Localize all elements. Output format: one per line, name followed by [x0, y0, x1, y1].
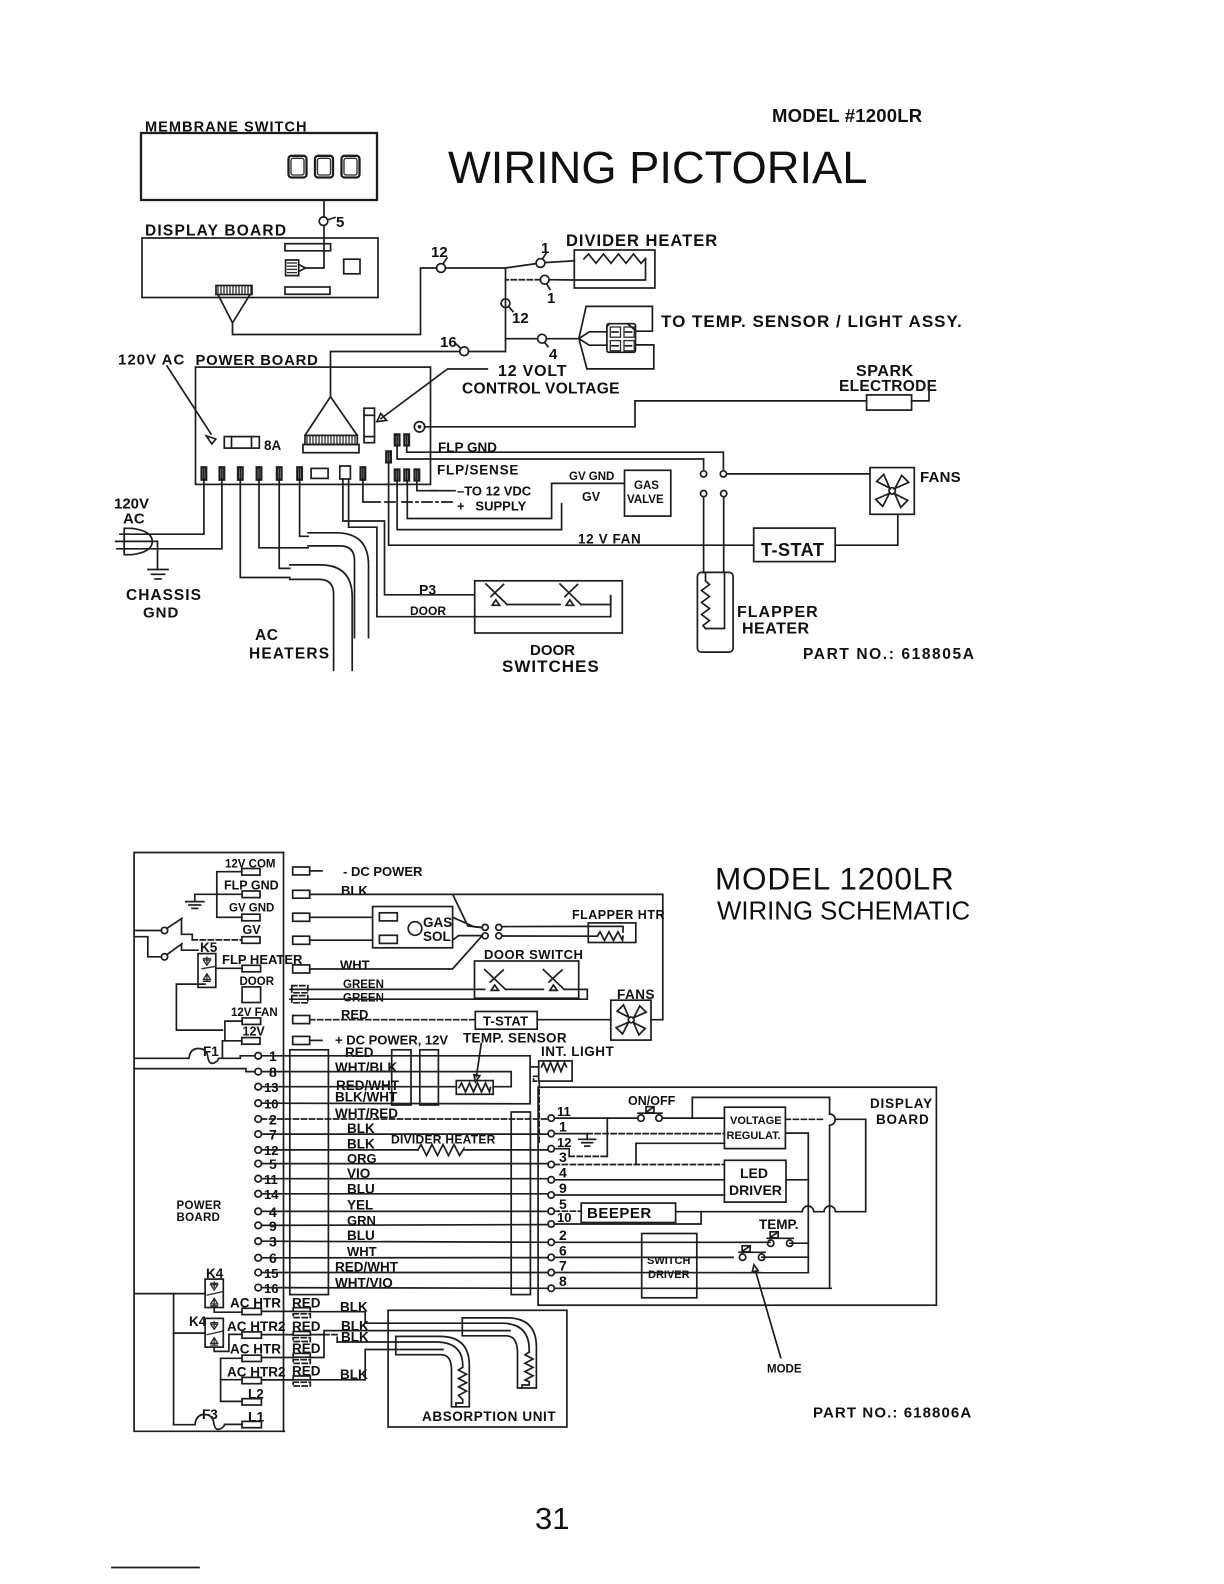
membrane button 1: [289, 156, 307, 178]
svg-text:FLP/SENSE: FLP/SENSE: [437, 463, 519, 478]
flapper htr resistor: [597, 932, 623, 941]
row 9 wire: [554, 1194, 724, 1196]
node 1 circle (lower): [540, 275, 549, 284]
door switch box: [475, 961, 579, 998]
svg-text:12: 12: [557, 1135, 571, 1150]
svg-text:WIRING SCHEMATIC: WIRING SCHEMATIC: [717, 898, 970, 926]
temp sensor connector rects: [392, 1050, 411, 1105]
DOOR connector square: [242, 987, 261, 1003]
AC HTR terminal 1: [242, 1308, 261, 1314]
svg-text:WHT/BLK: WHT/BLK: [335, 1060, 397, 1075]
arrow 120VAC to fuse: [167, 366, 211, 434]
o8 feed wire: [134, 1069, 255, 1072]
svg-text:WHT: WHT: [347, 1244, 377, 1259]
12 V FAN wire: [389, 462, 754, 545]
wire hot: plug to pin1: [120, 480, 204, 535]
RED row connector + wire: [293, 1016, 310, 1024]
svg-text:DRIVER: DRIVER: [729, 1182, 782, 1198]
flapper htr inner wire: [588, 926, 623, 932]
membrane button 3: [342, 156, 360, 178]
GV GND row connector + wire: [293, 913, 310, 921]
svg-text:ABSORPTION UNIT: ABSORPTION UNIT: [422, 1409, 556, 1424]
display board edge connector (hatched): [216, 286, 252, 323]
wire 16 to power board connector: [331, 352, 460, 397]
T-STAT to fans: [537, 1019, 611, 1021]
membrane switch box: [141, 133, 377, 200]
svg-text:TEMP.: TEMP.: [759, 1217, 799, 1232]
svg-text:8: 8: [559, 1273, 567, 1289]
door switch inner wire: [506, 988, 544, 990]
svg-text:WHT: WHT: [340, 958, 370, 973]
svg-text:T-STAT: T-STAT: [761, 540, 824, 560]
svg-text:TO TEMP. SENSOR / LIGHT ASSY.: TO TEMP. SENSOR / LIGHT ASSY.: [661, 312, 963, 331]
GV GND wire: [407, 481, 624, 519]
gas sol inner terminals: [379, 913, 397, 921]
svg-text:9: 9: [559, 1180, 567, 1196]
absorption unit box: [388, 1310, 567, 1427]
svg-text:K4: K4: [189, 1314, 207, 1329]
svg-text:DIVIDER HEATER: DIVIDER HEATER: [566, 232, 718, 250]
int light resistor: [542, 1063, 567, 1072]
divider heater resistor: [584, 254, 646, 263]
T-STAT box: [754, 528, 836, 562]
wire row3 to element A: [261, 1357, 293, 1359]
wire gnd prong to chassis: [116, 541, 158, 569]
svg-text:INT. LIGHT: INT. LIGHT: [541, 1044, 614, 1059]
power board pins row: [202, 434, 420, 480]
spark electrode stub: [912, 386, 929, 401]
row 10 wire: [554, 1212, 701, 1224]
LED driver output: [786, 1179, 808, 1181]
display board box: [538, 1087, 936, 1305]
int light resistor box: [539, 1061, 572, 1081]
door switch symbol 1: [486, 584, 507, 605]
membrane button 2: [315, 156, 333, 178]
svg-text:BOARD: BOARD: [876, 1112, 930, 1127]
row 7 wire: [554, 1272, 808, 1274]
svg-text:FLP HEATER: FLP HEATER: [222, 952, 303, 967]
GREEN wire 1: [290, 988, 485, 990]
wires to flapper heater: [703, 497, 705, 573]
12V terminal: [242, 1038, 260, 1045]
connector circles flapper: [701, 471, 707, 477]
svg-text:AC HTR: AC HTR: [230, 1342, 281, 1357]
svg-text:HEATERS: HEATERS: [249, 646, 330, 663]
relay component: [364, 408, 375, 443]
GV GND terminal: [242, 914, 260, 921]
fans box: [611, 1000, 651, 1040]
beeper output wire with hops: [676, 1206, 866, 1212]
display terminals: [548, 1104, 571, 1292]
12V FAN wire: [225, 1021, 242, 1041]
top loop: [692, 1097, 829, 1118]
svg-text:16: 16: [264, 1281, 278, 1296]
+ SUPPLY leader (dash-dot): [363, 481, 380, 503]
connector fan-in lines: [579, 332, 607, 345]
AC HTR terminal 3: [242, 1355, 261, 1361]
svg-text:FLAPPER HTR: FLAPPER HTR: [572, 908, 665, 922]
voltage regulator box: [724, 1107, 785, 1148]
svg-text:12: 12: [431, 244, 448, 261]
display board top bar: [285, 244, 331, 251]
fan blades: [616, 1005, 646, 1035]
power board box: [196, 367, 431, 484]
relay1 to AC HTR wire: [214, 1308, 242, 1313]
K4 relay 1: [205, 1279, 223, 1307]
svg-text:8A: 8A: [264, 438, 282, 453]
svg-text:1: 1: [547, 290, 555, 307]
wire pin5 to lower AC heater: [279, 480, 290, 569]
wire pin6 to upper AC heater: [300, 480, 309, 537]
120V plug symbol: [124, 528, 152, 554]
breaker switch 1: [134, 918, 242, 940]
svg-text:12V: 12V: [243, 1025, 266, 1039]
display board bottom bar: [285, 287, 330, 294]
12V wire to F1: [222, 1041, 241, 1059]
wire membrane to display board: [323, 200, 325, 217]
FLP GND wire: [407, 445, 724, 469]
K5 contacts: [202, 957, 216, 982]
svg-text:5: 5: [336, 214, 344, 231]
svg-text:120V AC: 120V AC: [118, 352, 185, 369]
svg-text:YEL: YEL: [347, 1198, 373, 1213]
row 8 wire: [554, 1287, 829, 1289]
AC heater elbow 1 (upper): [308, 533, 368, 638]
svg-text:- DC POWER: - DC POWER: [343, 864, 423, 879]
K5 relay box: [198, 954, 216, 988]
spark electrode body: [867, 395, 912, 410]
svg-text:31: 31: [535, 1501, 569, 1536]
svg-text:10: 10: [557, 1210, 571, 1225]
F1 fuse wire: [134, 1049, 255, 1064]
MODE leader arrow: [756, 1271, 781, 1358]
heater element B (right): [462, 1318, 536, 1388]
FLP HEATER terminal: [242, 965, 261, 972]
footer rule: [112, 1567, 199, 1569]
svg-text:AC: AC: [255, 627, 279, 644]
svg-text:REGULAT.: REGULAT.: [727, 1130, 781, 1142]
heater chain wires: [221, 1358, 242, 1401]
flapper heater body: [697, 572, 733, 652]
svg-text:2: 2: [559, 1227, 567, 1243]
svg-text:12 VOLT: 12 VOLT: [498, 363, 567, 380]
voltage reg right wires: [785, 1118, 824, 1120]
wire square-pin to DOOR: [349, 479, 611, 617]
display board box: [142, 238, 378, 298]
door switch symbol 2: [543, 970, 564, 991]
flapper heater inner wire: [706, 573, 725, 629]
door switches inner wire: [507, 604, 560, 606]
svg-text:7: 7: [559, 1258, 567, 1274]
wire row1 to element B: [261, 1310, 293, 1312]
row 5 wire to beeper: [554, 1210, 581, 1212]
K4 relay 2: [205, 1318, 223, 1347]
svg-text:HEATER: HEATER: [742, 621, 810, 638]
wire pin4 to upper AC heater: [259, 480, 308, 548]
svg-text:LED: LED: [740, 1165, 768, 1181]
svg-text:15: 15: [264, 1266, 278, 1281]
svg-text:GV: GV: [582, 490, 601, 504]
svg-text:CHASSIS: CHASSIS: [126, 587, 202, 604]
wire neutral: plug to pin2: [117, 480, 222, 549]
GV row connector + wire: [293, 936, 310, 944]
flapper heater element: [702, 573, 710, 629]
heater element A (left): [396, 1336, 470, 1406]
BLK diagonal to connector: [453, 894, 482, 927]
svg-text:BLK/WHT: BLK/WHT: [335, 1090, 398, 1105]
gas sol outputs to connector: [453, 917, 482, 927]
AC heater elbow 2 (lower): [290, 565, 352, 670]
GV wire: [397, 481, 561, 530]
node 1 circle (top): [536, 259, 545, 268]
svg-text:1: 1: [541, 240, 549, 257]
svg-text:GAS: GAS: [634, 480, 659, 492]
FLP GND ground wire: [195, 894, 242, 901]
row 12 loop to row 11: [554, 1149, 569, 1157]
AC HTR2 terminal 4: [242, 1377, 261, 1383]
svg-text:DISPLAY BOARD: DISPLAY BOARD: [145, 223, 287, 240]
harness connector housing (right tall): [511, 1112, 530, 1295]
wire node4 to connector arrow: [546, 338, 579, 340]
FLP/SENSE wire: [397, 445, 703, 469]
wire square-pin to P3: [343, 479, 475, 595]
BLK wire long to fans right: [310, 894, 663, 1019]
node 4 circle: [538, 334, 547, 343]
breaker switch 2: [134, 937, 198, 960]
AC HTR2 terminal: [242, 1332, 261, 1338]
svg-text:4: 4: [549, 346, 558, 363]
svg-text:16: 16: [440, 334, 457, 351]
wire fans feed: [727, 473, 870, 475]
svg-text:PART NO.: 618805A: PART NO.: 618805A: [803, 646, 976, 663]
FLP GND terminal: [242, 891, 260, 898]
node 16 wire: [469, 351, 506, 353]
wire pin3 to lower AC heater: [240, 480, 289, 578]
wire to spark electrode: [425, 401, 867, 427]
svg-text:GND: GND: [143, 605, 179, 622]
svg-text:DRIVER: DRIVER: [648, 1269, 690, 1281]
svg-text:DOOR SWITCH: DOOR SWITCH: [484, 947, 583, 962]
svg-text:CONTROL VOLTAGE: CONTROL VOLTAGE: [462, 381, 620, 398]
svg-text:DISPLAY: DISPLAY: [870, 1096, 933, 1111]
svg-text:–TO 12 VDC: –TO 12 VDC: [457, 484, 532, 499]
svg-text:GAS: GAS: [423, 915, 452, 930]
GREEN wire 2: [290, 989, 587, 999]
connector circles pair1: [482, 924, 488, 930]
K5 coil return wire: [176, 984, 222, 1030]
L1 terminal: [242, 1421, 261, 1427]
chassis ground symbol: [148, 570, 168, 580]
row: BLK connector: [293, 890, 310, 898]
display board connector (hatched): [286, 260, 306, 276]
FANS box: [870, 468, 914, 515]
connector circles pair2: [482, 933, 488, 939]
svg-text:T-STAT: T-STAT: [483, 1014, 528, 1029]
wire node12 to divider heater: [445, 264, 536, 268]
svg-text:11: 11: [557, 1104, 571, 1119]
svg-text:GV GND: GV GND: [569, 471, 614, 483]
door switch symbol 1: [485, 970, 506, 991]
vertical bus x=505: [505, 268, 507, 352]
fan blades: [876, 474, 909, 507]
K4 bus vertical: [173, 1294, 175, 1425]
ground lug circle-dot: [414, 422, 424, 432]
svg-text:SWITCHES: SWITCHES: [502, 657, 600, 676]
svg-text:VALVE: VALVE: [627, 494, 664, 506]
svg-text:+ SUPPLY: + SUPPLY: [457, 499, 527, 514]
T-STAT box: [475, 1012, 537, 1030]
svg-text:P3: P3: [419, 582, 436, 598]
connector circle 5: [319, 217, 328, 226]
dashed wire lower-1 to vertical: [506, 279, 541, 281]
+ DC POWER 12V connector: [293, 1036, 310, 1044]
temp sensor arrow: [476, 1044, 481, 1077]
node 16 circle: [460, 347, 469, 356]
int light return stub: [534, 1076, 540, 1142]
svg-text:MODE: MODE: [767, 1364, 802, 1376]
row 3 wire + branch to voltage regulator: [554, 1164, 724, 1166]
svg-text:GV GND: GV GND: [229, 903, 274, 915]
divider heater box: [574, 250, 655, 288]
GV terminal: [242, 937, 260, 944]
svg-text:RED: RED: [345, 1045, 374, 1060]
svg-text:12: 12: [512, 310, 529, 327]
svg-text:MODEL 1200LR: MODEL 1200LR: [715, 861, 955, 897]
svg-text:BOARD: BOARD: [177, 1212, 221, 1224]
L2 terminal: [242, 1399, 261, 1405]
K5 to FLP HEATER wire: [216, 967, 242, 969]
temp sensor resistor box: [456, 1081, 493, 1095]
row 11 wires: [554, 1117, 637, 1119]
divider heater inner wire: [574, 259, 645, 281]
wire to node 4 and temp connector: [506, 338, 538, 340]
temp sensor resistor: [459, 1083, 491, 1092]
TO TEMP SENSOR connector outline: [579, 306, 654, 369]
T-STAT to fans wire: [835, 514, 898, 545]
row 6 wire + mode switch: [554, 1256, 733, 1258]
svg-text:GV: GV: [243, 923, 262, 937]
node 12 circle: [437, 264, 446, 273]
wire row2 to element B: [261, 1334, 293, 1336]
terminal circles column o1-o16: [255, 1048, 279, 1296]
svg-text:12 V FAN: 12 V FAN: [578, 532, 641, 547]
K4 feed wire: [134, 1293, 205, 1295]
row 2 wire + temp switch: [554, 1241, 770, 1243]
ground symbol: [186, 902, 204, 909]
12V COM wire to GV GND: [217, 872, 242, 918]
vertical 829.6 with hop: [830, 1114, 836, 1288]
fuse 8A: [224, 437, 259, 449]
gas sol box: [373, 907, 453, 948]
svg-text:FANS: FANS: [920, 469, 961, 486]
svg-text:AC: AC: [123, 511, 145, 528]
svg-text:SOL: SOL: [423, 929, 451, 944]
LED driver box: [724, 1160, 786, 1202]
svg-text:ELECTRODE: ELECTRODE: [839, 378, 937, 395]
beeper box: [581, 1203, 675, 1222]
harness connector housing (left tall): [290, 1050, 329, 1295]
display board small square: [344, 259, 360, 274]
power board triangle connector: [303, 397, 359, 453]
svg-text:4: 4: [559, 1165, 567, 1181]
element B conductor + resistor: [462, 1323, 529, 1352]
svg-text:PART NO.: 618806A: PART NO.: 618806A: [813, 1405, 972, 1422]
svg-text:DOOR: DOOR: [410, 604, 446, 618]
flapper htr box: [588, 923, 636, 943]
svg-text:POWER: POWER: [177, 1200, 222, 1212]
WHT row connector + wire: [293, 965, 310, 973]
ON/OFF switch: [638, 1107, 662, 1122]
svg-text:MODEL #1200LR: MODEL #1200LR: [772, 105, 922, 126]
12V COM terminal: [242, 869, 260, 876]
svg-text:VOLTAGE: VOLTAGE: [730, 1115, 782, 1127]
K4 relay2 feed: [174, 1332, 206, 1334]
door switch symbol 2: [560, 584, 581, 605]
door switches box: [475, 581, 623, 633]
12 VOLT CONTROL VOLTAGE leader: [381, 369, 487, 419]
relay2 to AC HTR2 wire: [214, 1334, 242, 1351]
row 1 wire + ground: [554, 1134, 587, 1140]
svg-text:1: 1: [559, 1119, 567, 1135]
TO 12 VDC leader: [417, 481, 455, 491]
svg-text:BEEPER: BEEPER: [587, 1205, 652, 1222]
gas valve box: [625, 470, 671, 516]
svg-text:6: 6: [559, 1243, 567, 1259]
svg-text:3: 3: [559, 1149, 567, 1165]
switch driver box: [642, 1234, 697, 1298]
svg-text:WIRING PICTORIAL: WIRING PICTORIAL: [448, 142, 867, 193]
gas sol coil circle: [408, 922, 422, 936]
row: - DC POWER connector: [293, 867, 310, 875]
4-pin connector square: [607, 324, 636, 353]
12V FAN terminal: [242, 1018, 261, 1025]
F3 fuse wire: [174, 1415, 242, 1430]
svg-text:BLK: BLK: [341, 883, 368, 898]
wire node1 to divider heater box: [545, 261, 574, 263]
svg-text:FLAPPER: FLAPPER: [737, 604, 819, 621]
wire row4 to element A: [261, 1379, 293, 1381]
wires to flapper htr: [502, 925, 589, 927]
row 4 wire: [554, 1179, 724, 1181]
node 12 circle (lower): [501, 299, 510, 308]
element A conductor + resistor: [396, 1342, 463, 1367]
wire display board to node 12: [233, 268, 437, 335]
power board outline: [134, 853, 284, 1432]
